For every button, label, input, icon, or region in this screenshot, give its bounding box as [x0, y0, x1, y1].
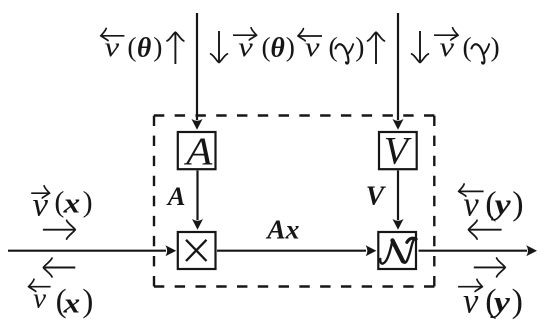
- wire A to multiplier: [196, 171, 198, 221]
- svg-text:ν: ν: [105, 32, 120, 62]
- up arrow gamma: [375, 34, 377, 65]
- gaussian N box: [378, 232, 416, 269]
- label right-message of gamma: [434, 34, 457, 36]
- arrow backward x: [45, 267, 76, 269]
- svg-text:(: (: [127, 31, 136, 62]
- wire Ax: [217, 250, 366, 252]
- wire theta input: [196, 13, 198, 120]
- svg-text:A: A: [166, 181, 186, 211]
- wire y output: [419, 250, 528, 252]
- label forward-message of y: [458, 286, 481, 288]
- wire x input: [8, 250, 166, 252]
- wire gamma input: [397, 13, 399, 120]
- svg-text:ν: ν: [440, 32, 455, 62]
- multiplier cross: [186, 240, 207, 261]
- arrow forward x: [43, 229, 74, 231]
- gaussian N glyph: [380, 238, 416, 263]
- svg-text:): ): [82, 283, 93, 319]
- svg-text:ν: ν: [33, 187, 49, 224]
- svg-text:): ): [153, 31, 162, 62]
- label forward-message of x: [31, 192, 48, 194]
- svg-text:A: A: [183, 128, 213, 172]
- down arrow theta: [218, 31, 220, 61]
- svg-text:): ): [491, 31, 500, 62]
- up arrow theta: [174, 34, 176, 65]
- svg-text:V: V: [384, 129, 412, 173]
- block V box: [379, 132, 417, 169]
- multiplier box: [178, 232, 216, 269]
- label backward-message of y: [460, 190, 484, 192]
- svg-text:): ): [512, 185, 523, 222]
- svg-text:): ): [83, 186, 93, 219]
- wire V to N: [397, 171, 399, 221]
- svg-text:θ: θ: [271, 32, 285, 63]
- arrow backward y: [470, 229, 502, 231]
- label backward-message of x: [30, 286, 51, 288]
- label right-message of theta: [233, 34, 256, 36]
- svg-text:): ): [355, 31, 364, 62]
- svg-text:y: y: [491, 189, 512, 221]
- svg-text:Ax: Ax: [265, 214, 299, 245]
- svg-text:ν: ν: [238, 32, 253, 62]
- svg-text:ν: ν: [463, 280, 478, 320]
- svg-text:x: x: [62, 288, 80, 320]
- label left-message of theta: [102, 35, 125, 37]
- down arrow gamma: [419, 31, 421, 61]
- svg-text:ν: ν: [305, 32, 320, 62]
- svg-text:ν: ν: [463, 185, 479, 223]
- block A box: [178, 132, 216, 169]
- svg-text:y: y: [490, 286, 510, 319]
- dashed module boundary: [154, 116, 435, 287]
- svg-text:): ): [512, 283, 523, 320]
- svg-text:V: V: [366, 180, 387, 211]
- svg-text:ν: ν: [33, 282, 46, 314]
- svg-text:x: x: [62, 188, 80, 220]
- svg-text:(: (: [262, 31, 271, 62]
- svg-text:): ): [286, 31, 295, 62]
- svg-text:θ: θ: [137, 32, 151, 63]
- svg-text:(: (: [463, 31, 472, 62]
- arrow forward y: [474, 266, 504, 268]
- label left-message of gamma: [299, 35, 322, 37]
